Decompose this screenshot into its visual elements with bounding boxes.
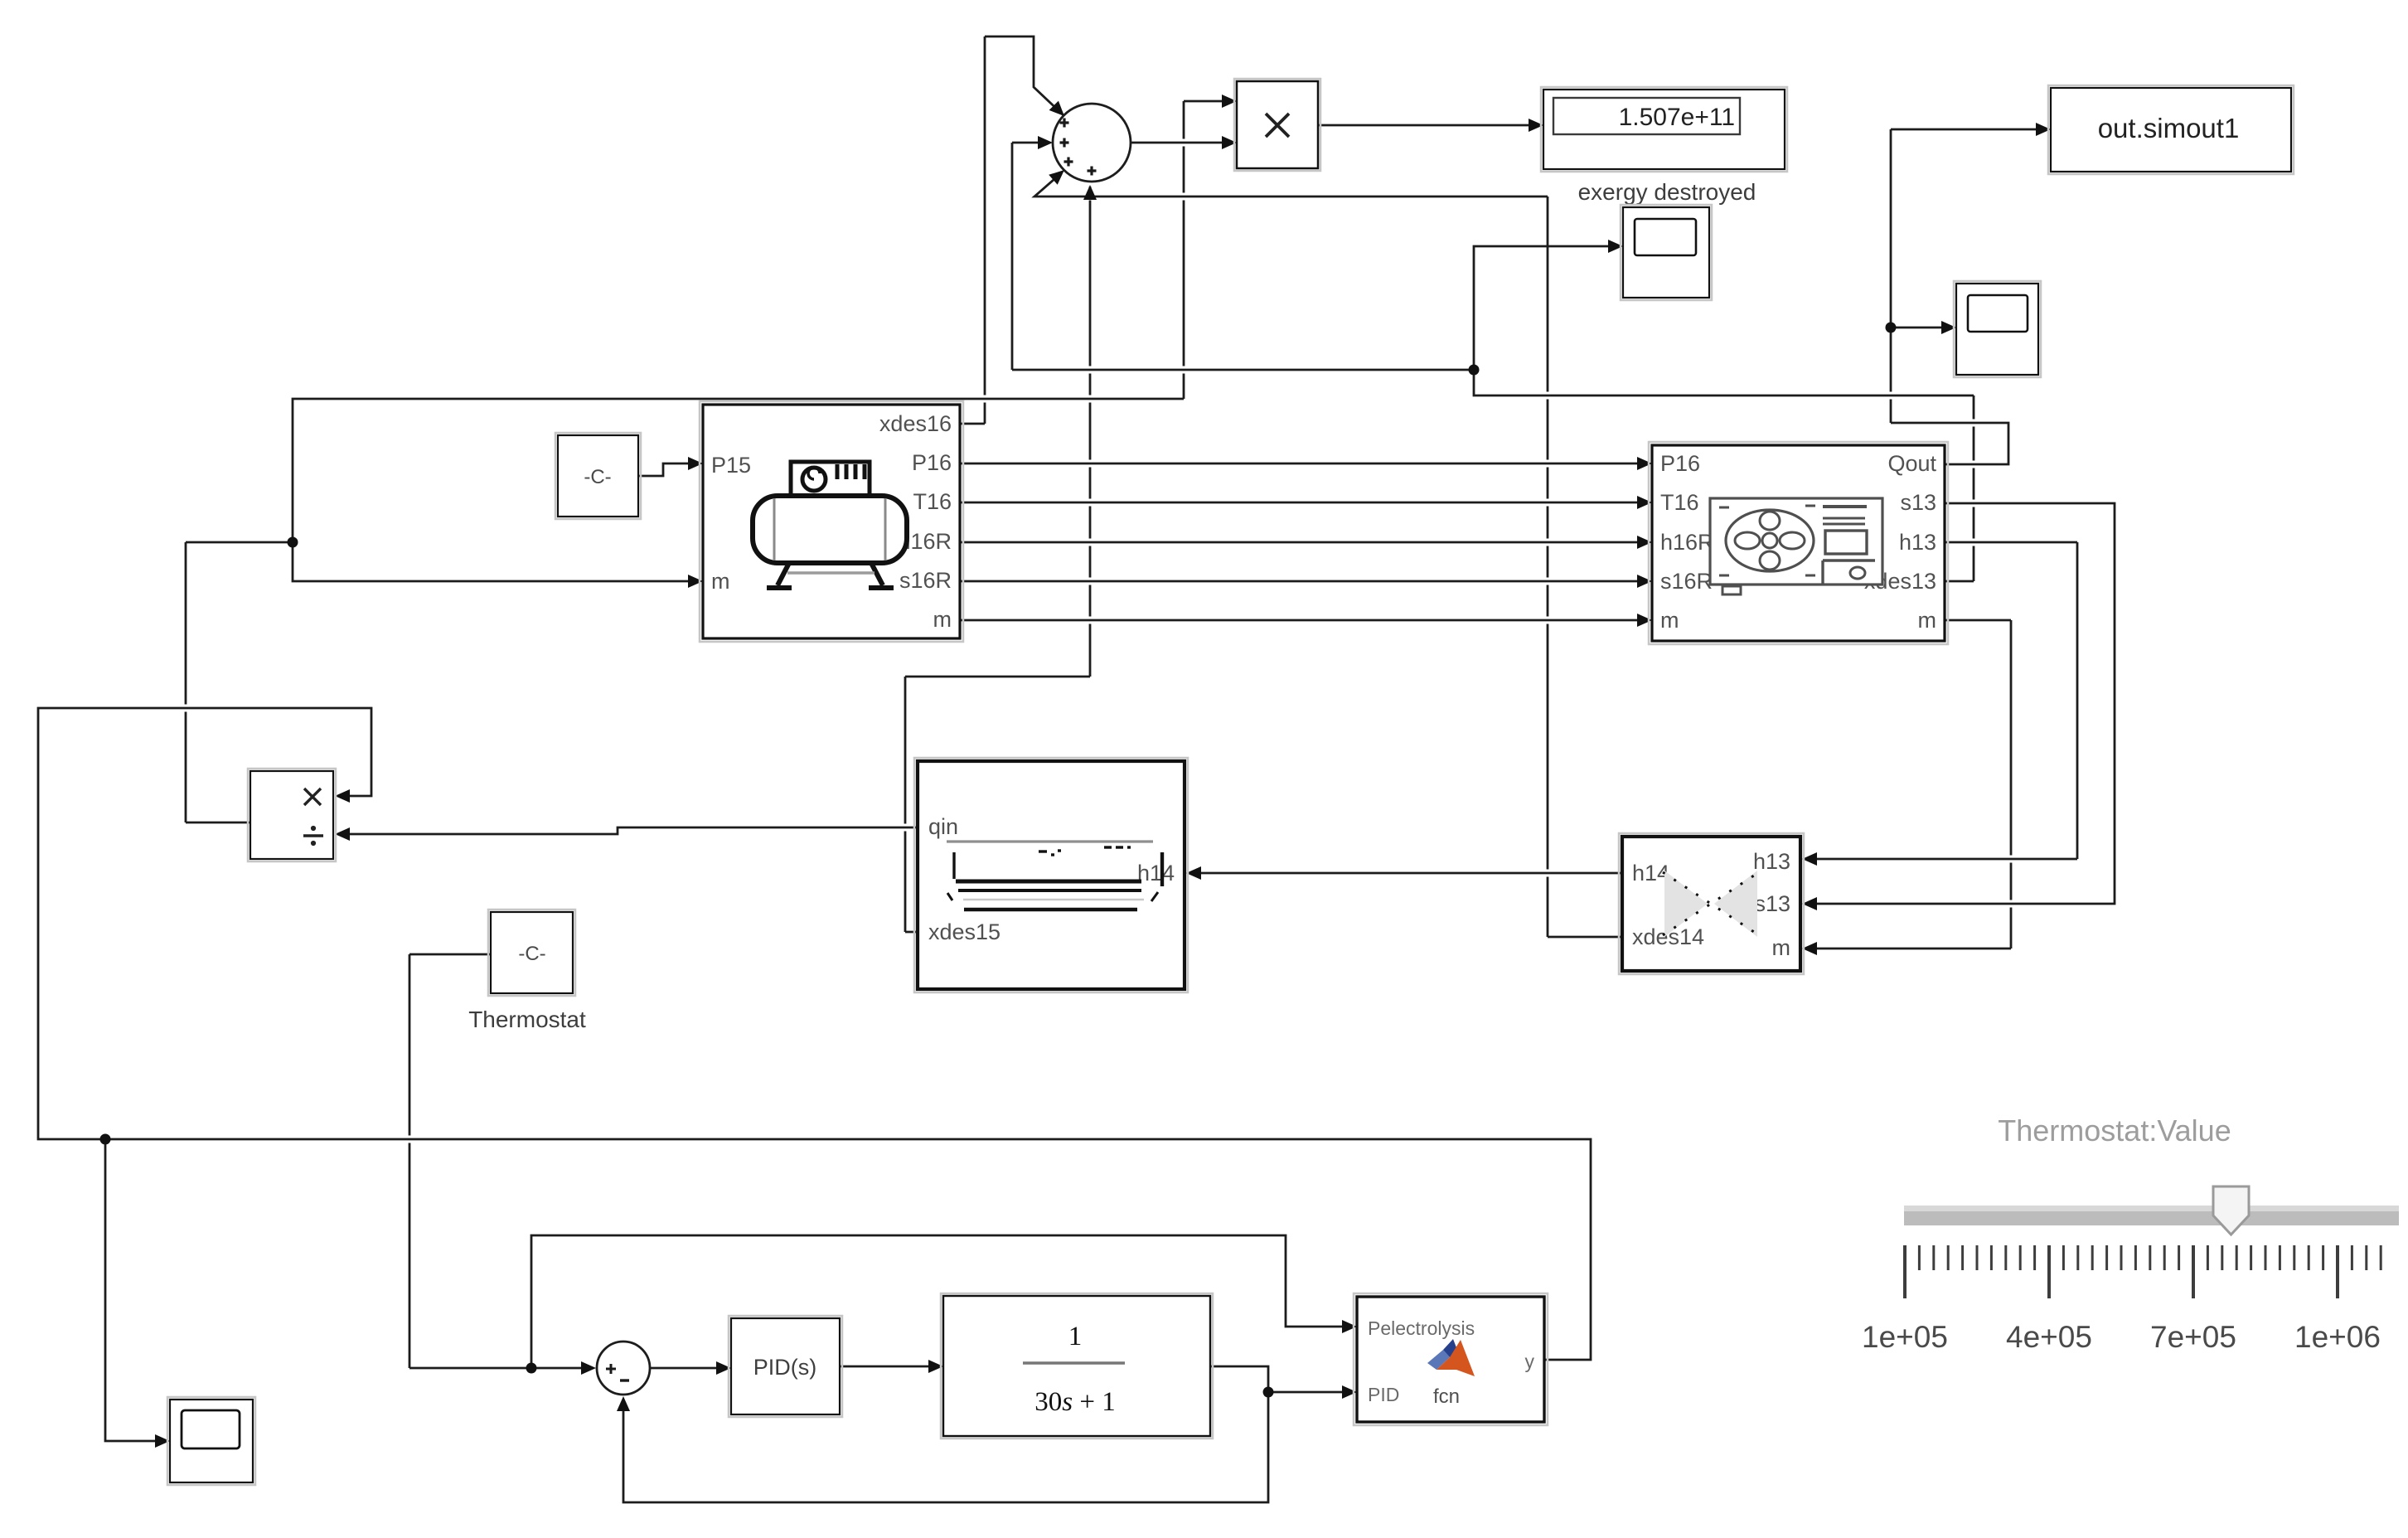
- svg-text:s13: s13: [1754, 891, 1790, 916]
- svg-text:m: m: [1918, 608, 1937, 633]
- wire xdes13 from condenser to sum left input: [1012, 143, 1974, 581]
- wire divide output up to multiply upper input: [186, 101, 1223, 822]
- scope block bottom left: [167, 1397, 255, 1485]
- wire branch to bottom-left scope: [105, 1139, 156, 1441]
- svg-text:y: y: [1525, 1351, 1535, 1372]
- svg-text:4e+05: 4e+05: [2006, 1320, 2092, 1354]
- wire Thermostat constant to bottom sum: [409, 954, 582, 1368]
- svg-text:s16R: s16R: [1660, 569, 1713, 594]
- constant block -C- Thermostat: [488, 910, 575, 996]
- scope block Qout: [1954, 281, 2041, 377]
- svg-text:30s + 1: 30s + 1: [1034, 1387, 1115, 1417]
- wire branch divide output to compressor m input: [293, 542, 689, 581]
- svg-text:s16R: s16R: [899, 568, 952, 593]
- svg-text:qin: qin: [928, 814, 958, 839]
- wire s13 from condenser to expansion valve: [1816, 503, 2115, 904]
- wire transfer function output to fcn PID input: [1210, 1366, 1343, 1392]
- transfer function block 1/(30s+1): [941, 1293, 1213, 1439]
- slider thumb: [2213, 1186, 2249, 1235]
- svg-text:T16: T16: [913, 489, 952, 514]
- svg-text:h16R: h16R: [1660, 530, 1714, 555]
- svg-text:s13: s13: [1900, 490, 1936, 515]
- svg-text:-C-: -C-: [584, 466, 611, 488]
- svg-text:exergy destroyed: exergy destroyed: [1578, 179, 1756, 205]
- wire h13 from condenser to expansion valve: [1816, 542, 2077, 859]
- wire xdes15 from evaporator to sum bottom input: [905, 187, 1090, 932]
- svg-text:m: m: [1772, 935, 1791, 960]
- out.simout1 To-Workspace block: [2048, 85, 2294, 174]
- scope block exergy destroyed: [1621, 205, 1712, 300]
- wire T16 from compressor to condenser: [960, 502, 1638, 504]
- wire P16 from compressor to condenser: [960, 463, 1638, 465]
- constant block -C- P15: [555, 433, 641, 519]
- svg-text:h14: h14: [1137, 861, 1175, 885]
- sum junction Add1 (exergy total): [1053, 104, 1131, 182]
- svg-text:1.507e+11: 1.507e+11: [1619, 104, 1735, 131]
- wire multiply output to display: [1318, 124, 1529, 127]
- wire Qout from condenser to out.simout1: [1891, 129, 2037, 464]
- compressor subsystem block: [700, 401, 963, 642]
- junction dot Thermostat branch: [526, 1363, 537, 1374]
- svg-text:m: m: [1660, 608, 1679, 633]
- wire bottom sum output to PID block: [650, 1367, 717, 1370]
- svg-text:out.simout1: out.simout1: [2098, 113, 2240, 143]
- wire branch Thermostat to fcn Pelectrolysis input: [531, 1235, 1343, 1368]
- wire PID output to transfer function: [840, 1366, 929, 1368]
- svg-text:h13: h13: [1899, 530, 1936, 555]
- svg-text:P15: P15: [711, 453, 751, 478]
- display block total exergy destroyed value: [1541, 87, 1787, 172]
- wire qin from evaporator to divide block: [349, 827, 918, 834]
- compressor icon: [791, 462, 870, 497]
- wire xdes16 from compressor to sum junction: [960, 36, 1064, 424]
- junction dot Qout branch: [1886, 323, 1897, 333]
- svg-text:1e+05: 1e+05: [1862, 1320, 1948, 1354]
- slider track: [1904, 1206, 2399, 1225]
- svg-text:Qout: Qout: [1887, 451, 1936, 476]
- wire sum output to multiply block: [1131, 142, 1223, 144]
- MATLAB Function block Pelectrolysis: [1354, 1293, 1548, 1425]
- wire s16R from compressor to condenser: [960, 580, 1638, 583]
- wire h14 from expansion valve to evaporator: [1200, 872, 1622, 875]
- svg-text:P16: P16: [912, 450, 952, 475]
- evaporator icon: [947, 840, 1153, 842]
- wire fcn y output feedback to divide block: [38, 708, 1591, 1360]
- wire branch Qout to scope: [1891, 327, 1942, 329]
- bottom sum junction (thermostat error): [597, 1342, 650, 1395]
- svg-text:m: m: [933, 607, 952, 632]
- wire branch xdes13 to exergy-destroyed scope: [1474, 246, 1609, 370]
- svg-text:PID: PID: [1368, 1384, 1399, 1405]
- svg-text:T16: T16: [1660, 490, 1699, 515]
- condenser fan icon: [1710, 498, 1882, 585]
- condenser subsystem block: [1649, 442, 1948, 644]
- svg-text:Thermostat:Value: Thermostat:Value: [1998, 1113, 2231, 1147]
- svg-text:-C-: -C-: [518, 943, 545, 965]
- slider tick marks: [1905, 1245, 2381, 1298]
- junction dot transfer function output branch: [1263, 1387, 1274, 1398]
- svg-text:PID(s): PID(s): [753, 1355, 817, 1380]
- PID controller block: [729, 1316, 842, 1417]
- junction dot fcn output branch: [100, 1134, 111, 1145]
- expansion valve subsystem block: [1619, 833, 1804, 974]
- wire m from condenser to expansion valve: [1816, 620, 2011, 949]
- MATLAB logo icon: [1427, 1350, 1450, 1370]
- svg-text:h13: h13: [1753, 849, 1790, 874]
- svg-text:7e+05: 7e+05: [2150, 1320, 2236, 1354]
- svg-text:xdes16: xdes16: [879, 411, 952, 436]
- expansion valve bowtie icon: [1664, 871, 1708, 937]
- svg-text:fcn: fcn: [1433, 1385, 1460, 1408]
- svg-text:P16: P16: [1660, 451, 1700, 476]
- svg-text:Thermostat: Thermostat: [468, 1007, 586, 1032]
- svg-text:m: m: [711, 569, 730, 594]
- evaporator subsystem block: [914, 758, 1188, 992]
- svg-text:1e+06: 1e+06: [2294, 1320, 2381, 1354]
- junction dot divide output branch: [288, 537, 298, 548]
- wire feedback to bottom sum minus input: [623, 1392, 1268, 1502]
- wire constant to compressor P15 input: [638, 463, 689, 476]
- wire m from compressor to condenser: [960, 619, 1638, 622]
- wire h16R from compressor to condenser: [960, 541, 1638, 544]
- multiply block Product1: [1234, 79, 1320, 171]
- svg-text:xdes15: xdes15: [928, 919, 1001, 944]
- junction dot xdes13 branch: [1469, 365, 1480, 376]
- svg-text:1: 1: [1068, 1322, 1083, 1351]
- divide block (m = P/qin): [248, 769, 336, 861]
- svg-text:Pelectrolysis: Pelectrolysis: [1368, 1317, 1475, 1339]
- wire xdes14 from expansion valve to sum diagonal input: [1034, 179, 1622, 937]
